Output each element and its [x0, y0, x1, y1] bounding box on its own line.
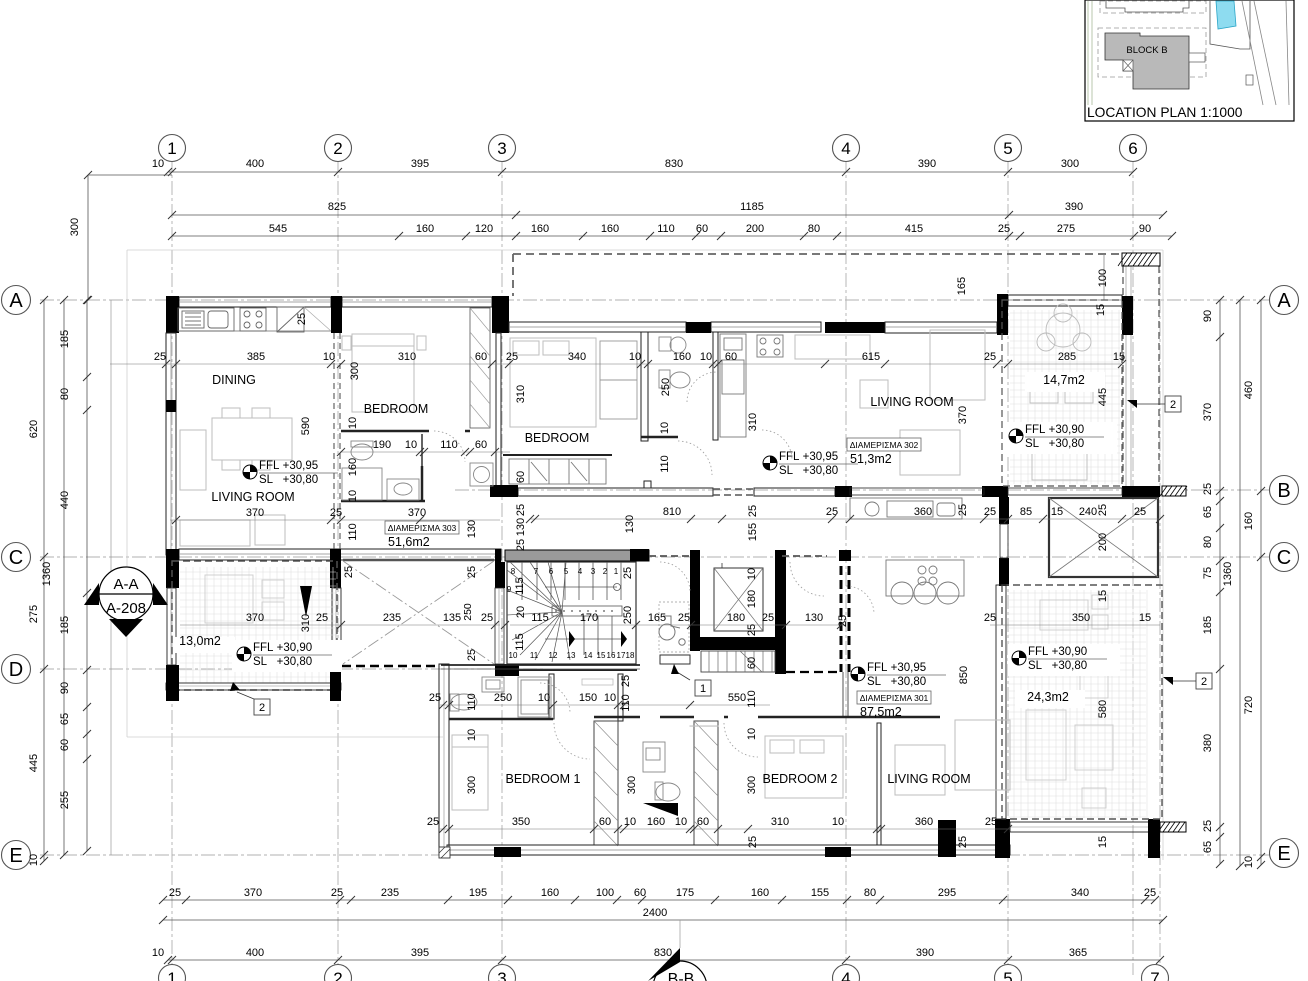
svg-text:310: 310 — [771, 816, 789, 828]
svg-text:10: 10 — [746, 728, 758, 740]
svg-text:LIVING ROOM: LIVING ROOM — [211, 490, 294, 504]
kitchen 303 counter line — [178, 330, 331, 332]
left dim chain 300 top — [87, 175, 89, 300]
svg-text:1: 1 — [167, 139, 176, 158]
row B hatched segment outside — [1160, 486, 1187, 496]
row E corner hatched — [439, 847, 450, 858]
veranda 24,3 furniture — [1026, 595, 1113, 808]
svg-text:350: 350 — [512, 816, 530, 828]
svg-text:25: 25 — [481, 612, 493, 624]
svg-text:80: 80 — [864, 887, 876, 899]
svg-text:5: 5 — [564, 567, 569, 576]
row B wall band — [518, 488, 713, 496]
wardrobe strip 302 — [509, 459, 606, 484]
svg-text:150: 150 — [579, 692, 597, 704]
svg-text:90: 90 — [1202, 310, 1214, 322]
svg-text:830: 830 — [665, 158, 683, 170]
left dim chain inner detail — [86, 300, 88, 851]
svg-text:580: 580 — [1097, 700, 1109, 718]
location plan pier rect — [1189, 53, 1205, 62]
level symbol apartment 303 — [243, 465, 257, 479]
svg-text:1: 1 — [614, 567, 619, 576]
svg-text:SL +30,80: SL +30,80 — [867, 676, 926, 688]
svg-text:160: 160 — [347, 458, 359, 476]
lobby wall right of elevator dashed — [840, 552, 843, 672]
apartment label 303 — [385, 521, 459, 534]
svg-text:25: 25 — [762, 612, 774, 624]
veranda 24,3 dashed border — [1002, 585, 1162, 819]
svg-text:400: 400 — [246, 947, 264, 959]
svg-text:110: 110 — [657, 223, 675, 235]
svg-text:20: 20 — [515, 606, 527, 618]
svg-text:ΔΙΑΜΕΡΙΣΜΑ 303: ΔΙΑΜΕΡΙΣΜΑ 303 — [388, 523, 457, 533]
kitchen 302 counter — [720, 334, 783, 437]
bed 301 bedroom2 — [765, 736, 843, 798]
kitchen 303 sink and counter — [178, 308, 234, 331]
svg-text:60: 60 — [475, 351, 487, 363]
svg-text:25: 25 — [984, 612, 996, 624]
svg-text:160: 160 — [541, 887, 559, 899]
grid bubbles bottom — [159, 965, 186, 981]
svg-text:250: 250 — [462, 603, 474, 621]
svg-text:300: 300 — [69, 218, 81, 236]
svg-text:BEDROOM 2: BEDROOM 2 — [762, 772, 837, 786]
svg-text:15: 15 — [1139, 612, 1151, 624]
svg-text:25: 25 — [316, 612, 328, 624]
svg-text:1185: 1185 — [740, 201, 764, 213]
row B window band kitchen — [850, 488, 984, 495]
left dim chain outer 620/275/445 — [43, 300, 45, 861]
apartment 301 wardrobe 2 — [694, 721, 718, 845]
svg-text:80: 80 — [808, 223, 820, 235]
svg-text:25: 25 — [515, 539, 527, 551]
svg-text:130: 130 — [466, 520, 478, 538]
svg-text:310: 310 — [515, 385, 527, 403]
row C wall band apartment 303 — [179, 549, 501, 560]
wall black segment grid4-A — [825, 322, 885, 333]
kitchen 301 counter row B — [850, 498, 962, 519]
in-plan dim ticks row y625 — [337, 621, 345, 629]
lobby entrance door — [660, 655, 690, 664]
svg-text:10: 10 — [1243, 856, 1255, 868]
svg-text:300: 300 — [1061, 158, 1079, 170]
top dim chain detail — [172, 235, 1172, 237]
column grid3-C black — [495, 549, 501, 577]
apartment 303 interior dashed partition — [333, 333, 335, 549]
svg-text:15: 15 — [1097, 590, 1109, 602]
bath 301 corridor fixtures — [450, 677, 551, 717]
svg-text:10: 10 — [624, 816, 636, 828]
svg-text:60: 60 — [697, 816, 709, 828]
svg-text:65: 65 — [59, 713, 71, 725]
in-plan dim ticks row y364 — [162, 360, 170, 368]
svg-text:A-208: A-208 — [106, 600, 146, 617]
svg-text:190: 190 — [373, 439, 391, 451]
svg-text:90: 90 — [1139, 223, 1151, 235]
apartment 301 bedroom2 top wall — [660, 716, 694, 719]
svg-text:25: 25 — [1202, 483, 1214, 495]
svg-text:155: 155 — [811, 887, 829, 899]
row E hatched block right — [1158, 822, 1186, 832]
location plan frame — [1085, 0, 1294, 121]
wheelchair symbol — [659, 616, 685, 645]
svg-text:25: 25 — [957, 504, 969, 516]
svg-text:25: 25 — [984, 506, 996, 518]
veranda 13,0 furniture — [205, 575, 284, 623]
svg-text:6: 6 — [1128, 139, 1137, 158]
svg-text:310: 310 — [747, 413, 759, 431]
void area left of stairs cross — [343, 559, 494, 562]
svg-text:51,3m2: 51,3m2 — [850, 452, 892, 466]
svg-text:10: 10 — [746, 568, 758, 580]
svg-text:165: 165 — [956, 277, 968, 295]
wheelchair dotted box — [659, 602, 689, 652]
svg-text:E: E — [9, 845, 22, 867]
svg-text:10: 10 — [152, 158, 164, 170]
svg-text:60: 60 — [696, 223, 708, 235]
svg-text:3: 3 — [591, 567, 596, 576]
svg-text:160: 160 — [647, 816, 665, 828]
svg-text:25: 25 — [678, 612, 690, 624]
svg-text:18: 18 — [626, 651, 635, 660]
elevator shaft walls — [690, 550, 700, 651]
svg-text:75: 75 — [1202, 567, 1214, 579]
right dim chain 1360 — [1239, 300, 1241, 866]
svg-text:235: 235 — [381, 887, 399, 899]
grid centerlines horizontal A-E — [40, 299, 1296, 301]
svg-text:295: 295 — [938, 887, 956, 899]
svg-text:395: 395 — [411, 947, 429, 959]
svg-text:2: 2 — [333, 139, 342, 158]
svg-text:BLOCK B: BLOCK B — [1126, 45, 1167, 56]
kitchen 301 island — [886, 560, 964, 604]
level symbol veranda 13,0 — [237, 647, 251, 661]
svg-text:1: 1 — [167, 969, 176, 981]
svg-text:250: 250 — [494, 692, 512, 704]
svg-text:85: 85 — [1020, 506, 1032, 518]
column grid6-A — [1122, 296, 1133, 335]
svg-text:FFL +30,90: FFL +30,90 — [1028, 646, 1087, 658]
svg-text:87,5m2: 87,5m2 — [860, 705, 902, 719]
svg-text:310: 310 — [300, 614, 312, 632]
svg-text:10: 10 — [659, 422, 671, 434]
svg-text:275: 275 — [1057, 223, 1075, 235]
in-plan dim ticks row y705 — [439, 701, 447, 709]
location plan dashed plot boundaries — [1100, 1, 1206, 13]
top dim chain 825/1185/390 — [172, 214, 1163, 216]
grid bubbles top 1-6 — [159, 135, 186, 162]
svg-text:LOCATION PLAN 1:1000: LOCATION PLAN 1:1000 — [1087, 105, 1243, 120]
svg-text:SL +30,80: SL +30,80 — [1028, 660, 1087, 672]
column grid1-D — [166, 665, 179, 701]
svg-text:25: 25 — [747, 505, 759, 517]
left exterior wall apartment 303 — [166, 333, 176, 555]
bed 302 bedroom — [510, 338, 596, 427]
svg-text:590: 590 — [300, 417, 312, 435]
svg-text:165: 165 — [648, 612, 666, 624]
svg-text:10: 10 — [675, 816, 687, 828]
svg-text:360: 360 — [914, 506, 932, 518]
svg-text:60: 60 — [599, 816, 611, 828]
row B wall black segments — [490, 485, 518, 497]
bath 302 fixtures — [659, 337, 690, 388]
svg-text:60: 60 — [59, 739, 71, 751]
white patch veranda 24,3 label — [1015, 690, 1085, 708]
svg-text:415: 415 — [905, 223, 923, 235]
stair walk line upper — [545, 586, 617, 588]
svg-text:80: 80 — [59, 388, 71, 400]
white patch veranda 13,0 label — [175, 637, 235, 653]
nook shelf — [582, 679, 613, 685]
svg-text:115: 115 — [531, 612, 549, 624]
column grid2-D — [330, 665, 341, 701]
svg-text:6: 6 — [549, 567, 554, 576]
svg-text:2: 2 — [259, 702, 265, 714]
svg-text:8: 8 — [511, 567, 516, 576]
svg-text:15: 15 — [1051, 506, 1063, 518]
veranda 14,7 hatch — [1010, 310, 1120, 484]
apartment 301 corridor top wall — [441, 664, 640, 666]
svg-text:DINING: DINING — [212, 373, 256, 387]
svg-text:13: 13 — [567, 651, 576, 660]
svg-text:365: 365 — [1069, 947, 1087, 959]
svg-text:SL +30,80: SL +30,80 — [1025, 438, 1084, 450]
right dim chain outer — [1260, 300, 1262, 865]
svg-text:ΔΙΑΜΕΡΙΣΜΑ 301: ΔΙΑΜΕΡΙΣΜΑ 301 — [860, 693, 929, 703]
svg-text:10: 10 — [538, 692, 550, 704]
svg-text:350: 350 — [1072, 612, 1090, 624]
svg-text:115: 115 — [514, 577, 526, 595]
bath 303 fixtures — [342, 441, 419, 500]
section cone triangle — [300, 586, 312, 617]
svg-text:25: 25 — [343, 566, 355, 578]
svg-text:25: 25 — [466, 649, 478, 661]
apartment 301 left wall — [439, 664, 449, 855]
svg-text:160: 160 — [416, 223, 434, 235]
svg-text:200: 200 — [1097, 533, 1109, 551]
svg-text:250: 250 — [660, 378, 672, 396]
svg-text:LIVING ROOM: LIVING ROOM — [887, 772, 970, 786]
svg-text:25: 25 — [1144, 887, 1156, 899]
svg-text:25: 25 — [746, 624, 758, 636]
svg-text:100: 100 — [596, 887, 614, 899]
svg-text:10: 10 — [347, 490, 359, 502]
svg-text:250: 250 — [622, 606, 634, 624]
apartment 303 wardrobe — [470, 308, 490, 428]
svg-text:LIVING ROOM: LIVING ROOM — [870, 395, 953, 409]
ref box 2 veranda 13,0 — [254, 699, 270, 715]
row E wall band — [447, 845, 1010, 855]
svg-text:2: 2 — [333, 969, 342, 981]
svg-text:390: 390 — [916, 947, 934, 959]
veranda 13,0 bottom band — [166, 683, 341, 690]
dining table 303 — [212, 408, 292, 470]
nook wall — [618, 674, 623, 721]
apartment label 301 — [857, 691, 931, 704]
arrow black triangle bath 301 — [643, 803, 678, 816]
svg-text:4: 4 — [841, 139, 850, 158]
svg-text:235: 235 — [383, 612, 401, 624]
column grid5-A — [997, 294, 1008, 335]
row A wall band apartment 302 — [509, 322, 686, 332]
bed 302 left bedroom furniture — [690, 725, 718, 727]
svg-text:65: 65 — [1202, 506, 1214, 518]
elevator car — [714, 568, 763, 631]
apartment 301 bedroom1 top wall — [594, 716, 640, 719]
hatched block top right — [1118, 253, 1160, 266]
svg-text:25: 25 — [515, 504, 527, 516]
svg-text:A-A: A-A — [113, 576, 138, 593]
svg-text:175: 175 — [676, 887, 694, 899]
svg-text:BEDROOM: BEDROOM — [525, 431, 590, 445]
svg-text:5: 5 — [1003, 139, 1012, 158]
svg-text:180: 180 — [746, 590, 758, 608]
apartment 302 bath wall right — [713, 332, 718, 440]
svg-text:385: 385 — [247, 351, 265, 363]
left offset line — [110, 300, 112, 855]
svg-text:300: 300 — [466, 776, 478, 794]
grid bubbles left A C D E — [2, 286, 31, 315]
site boundary light lines — [127, 249, 1163, 251]
svg-text:340: 340 — [568, 351, 586, 363]
svg-text:1360: 1360 — [1222, 562, 1234, 586]
veranda 14,7 chairs — [1030, 304, 1093, 480]
svg-text:550: 550 — [728, 692, 746, 704]
bottom dim chain detail — [163, 899, 1155, 901]
column grid2-C — [330, 549, 341, 588]
svg-text:200: 200 — [746, 223, 764, 235]
svg-text:160: 160 — [601, 223, 619, 235]
svg-text:110: 110 — [746, 690, 758, 708]
right dim chain inner detail — [1219, 300, 1221, 864]
svg-text:D: D — [9, 659, 23, 681]
row B window band veranda — [1008, 488, 1122, 495]
svg-text:60: 60 — [515, 471, 527, 483]
svg-text:13,0m2: 13,0m2 — [179, 634, 221, 648]
veranda 24,3 hatch — [1008, 590, 1147, 818]
in-plan dim ticks row y520 370 row — [172, 516, 180, 524]
veranda 13,0 hatch — [180, 567, 336, 683]
svg-text:25: 25 — [837, 615, 849, 627]
svg-text:10: 10 — [405, 439, 417, 451]
svg-text:12: 12 — [549, 651, 558, 660]
stair room outline — [507, 562, 636, 664]
living 302 furniture — [795, 330, 985, 475]
svg-text:25: 25 — [622, 567, 634, 579]
location plan BLOCK B gray mass — [1105, 33, 1189, 89]
svg-text:300: 300 — [626, 776, 638, 794]
level symbol apartment 301 — [851, 667, 865, 681]
ref box 2 right top — [1165, 396, 1181, 412]
svg-text:2: 2 — [603, 567, 608, 576]
ref box 2 right bottom — [1196, 673, 1212, 689]
svg-text:10: 10 — [28, 854, 40, 866]
top dim chain grid spacing — [168, 171, 1133, 173]
svg-text:25: 25 — [427, 816, 439, 828]
row E black segments — [494, 847, 521, 857]
svg-text:15: 15 — [597, 651, 606, 660]
svg-text:SL +30,80: SL +30,80 — [259, 474, 318, 486]
white patch veranda 14,7 label — [1025, 372, 1105, 392]
svg-text:BEDROOM: BEDROOM — [364, 402, 429, 416]
svg-text:15: 15 — [1095, 304, 1107, 316]
svg-text:65: 65 — [1202, 841, 1214, 853]
in-plan dim ticks row y829 — [439, 825, 447, 833]
svg-text:10: 10 — [700, 351, 712, 363]
svg-text:370: 370 — [244, 887, 262, 899]
svg-text:160: 160 — [751, 887, 769, 899]
left wall black segment — [166, 400, 176, 412]
svg-text:110: 110 — [440, 439, 458, 451]
svg-text:60: 60 — [475, 439, 487, 451]
svg-text:390: 390 — [1065, 201, 1083, 213]
svg-text:545: 545 — [269, 223, 287, 235]
svg-text:90: 90 — [59, 682, 71, 694]
svg-text:16: 16 — [607, 651, 616, 660]
svg-text:51,6m2: 51,6m2 — [388, 535, 430, 549]
grid5 wall B-C black segments — [999, 497, 1009, 524]
svg-text:370: 370 — [246, 612, 264, 624]
svg-text:130: 130 — [515, 518, 527, 536]
svg-text:195: 195 — [469, 887, 487, 899]
apartment 302 bath wall left — [641, 332, 648, 441]
kitchen 303 fridge diagonal box — [277, 307, 304, 332]
svg-text:110: 110 — [659, 455, 671, 473]
svg-text:25: 25 — [330, 507, 342, 519]
svg-text:110: 110 — [347, 523, 359, 541]
svg-text:440: 440 — [59, 491, 71, 509]
svg-text:1360: 1360 — [41, 562, 53, 586]
svg-text:60: 60 — [746, 657, 758, 669]
svg-text:400: 400 — [246, 158, 264, 170]
lobby door arcs dotted — [660, 562, 690, 592]
svg-text:285: 285 — [1058, 351, 1076, 363]
svg-text:185: 185 — [59, 330, 71, 348]
svg-text:615: 615 — [862, 351, 880, 363]
svg-text:7: 7 — [1150, 969, 1159, 981]
grid centerlines vertical 1-6 — [171, 158, 173, 975]
svg-text:FFL +30,90: FFL +30,90 — [253, 642, 312, 654]
stair winder fan lines — [507, 570, 562, 612]
column grid3-A — [492, 296, 509, 333]
svg-text:255: 255 — [59, 791, 71, 809]
svg-text:160: 160 — [1243, 512, 1255, 530]
left dim chain 1360 — [63, 300, 65, 855]
svg-text:60: 60 — [634, 887, 646, 899]
svg-text:25: 25 — [169, 887, 181, 899]
bed 301 bedroom1 — [452, 735, 488, 810]
svg-text:3: 3 — [497, 139, 506, 158]
svg-text:10: 10 — [509, 651, 518, 660]
svg-text:115: 115 — [514, 633, 526, 651]
in-plan dim ticks row y519 — [526, 515, 534, 523]
svg-text:B: B — [1277, 480, 1290, 502]
svg-text:185: 185 — [1202, 616, 1214, 634]
svg-text:395: 395 — [411, 158, 429, 170]
apartment 301 bedroom2/living wall — [877, 723, 881, 845]
svg-text:830: 830 — [654, 947, 672, 959]
location plan upper block outline — [1106, 1, 1189, 12]
svg-text:25: 25 — [331, 887, 343, 899]
apartment 303 bathroom walls — [421, 466, 424, 502]
svg-text:25: 25 — [1134, 506, 1146, 518]
bedroom 302 bottom wall — [503, 454, 612, 456]
level symbol apartment 302 — [763, 456, 777, 470]
row A wall band apartment 303 — [179, 297, 331, 307]
svg-text:25: 25 — [429, 692, 441, 704]
svg-text:300: 300 — [746, 776, 758, 794]
lobby steps below elevator — [701, 651, 775, 672]
